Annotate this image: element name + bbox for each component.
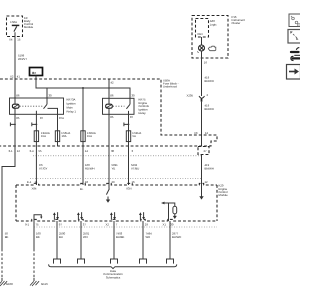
bus terminal staples [54,259,174,264]
svg-text:Logic: Logic [210,22,217,26]
svg-text:30: 30 [49,94,53,98]
svg-text:IGN: IGN [198,32,203,36]
svg-text:97: 97 [59,222,63,226]
left wire dashed to ground G108 [1,249,3,278]
svg-text:41: 41 [17,75,21,79]
svg-text:X205: X205 [187,93,194,97]
wire lamp to pin 16 [201,51,203,96]
svg-text:75: 75 [36,222,40,226]
svg-text:BK: BK [36,235,40,239]
power feed B+ box [30,68,43,76]
svg-text:86: 86 [110,94,114,98]
svg-text:85: 85 [110,115,114,119]
svg-text:B+: B+ [32,71,36,75]
svg-text:27: 27 [204,149,208,153]
ECM internal ground arrow on pin 12 [201,185,203,197]
svg-text:X2: X2 [10,75,14,79]
ground G116 [30,278,48,286]
fuse block X50A boundary (dashed) [0,79,217,146]
hook on pin85 wire [10,123,15,127]
svg-text:X4: X4 [9,38,13,42]
svg-text:15A: 15A [41,134,46,138]
ECM internal switch to ground on pin 29 [106,185,109,200]
svg-text:86: 86 [16,94,20,98]
harness dotted line upper [33,155,202,157]
fuse F50A symbol [12,24,19,26]
svg-text:BN/WH: BN/WH [205,166,214,170]
wire from BCM down to relay KR73A coil [14,37,16,99]
wire relay1 pin87 to fuse F94UA [35,114,37,131]
wire B+ bus to relay pins 30 [36,76,130,99]
svg-text:16: 16 [132,180,136,184]
wire ECM pin 29 to bus [142,221,144,259]
harness dotted line below ECM [34,226,217,228]
wires through fuse block bottom edge [35,142,37,146]
wire F59UA to ECM pin 16 [128,146,130,185]
sub-module A60 Logic (inner dashed box) [196,19,209,38]
wire ECM pin 97 to bus [56,221,58,259]
svg-text:29: 29 [145,222,149,226]
svg-text:Relay: Relay [139,111,147,115]
svg-text:VT/GY: VT/GY [39,166,48,170]
svg-text:5A: 5A [133,134,137,138]
svg-text:BN/WH: BN/WH [205,79,214,83]
wire ECM pin 37 to bus [80,221,82,259]
wire 3-1/12 down with jog to left [2,146,15,249]
ECM internal output arrows on pins 97 37 7 29 [53,215,55,220]
wire relay2 pin87 to fuse F59UA [128,114,130,131]
icon toolbar box 4 (forward arrow icon) [287,65,301,80]
svg-text:G116: G116 [41,282,48,286]
svg-text:X3: X3 [194,131,198,135]
ECM internal resistor branch (pin X1-30) [169,203,175,206]
svg-text:37: 37 [83,222,87,226]
svg-text:BU/BK: BU/BK [116,235,125,239]
wire relay2 pin85 (coil) down [108,114,110,146]
wire relay1 pin85 down [14,114,16,146]
icon toolbar glyph 3 (harness/connector icon) [291,48,300,61]
pin 27 stub box [198,147,209,155]
svg-text:55: 55 [39,149,43,153]
module P16 Instrument Cluster (dashed box) [192,16,228,59]
wire F58UA to ECM pin 18 [82,146,84,185]
fuse F59UA 5A [126,131,130,142]
ground G108 [0,278,13,286]
wire 3-4/55 down to ECM pin 11 [35,146,37,185]
svg-text:3-1: 3-1 [9,149,13,153]
fuse F94UA 15A [34,131,38,142]
svg-text:G108: G108 [6,282,13,286]
svg-text:VT/BU: VT/BU [131,166,139,170]
wire to KR75 coil from boundary [108,80,110,99]
hook on pin87 wire [32,123,37,127]
svg-text:WH: WH [146,235,151,239]
svg-text:15: 15 [17,38,21,42]
svg-text:87: 87 [130,115,134,119]
svg-text:BN/WH: BN/WH [205,107,214,111]
wire bus to fuse F58UA [82,88,84,131]
wire logic to lamp [201,37,203,45]
module K9 Body Control Module (dashed box) [7,16,23,37]
svg-text:15A: 15A [87,134,92,138]
svg-text:BK: BK [5,235,9,239]
relay KR75 Engine Controls Ignition Relay [103,98,135,114]
module K20 Engine Control Module (dashed box) [16,183,217,185]
svg-text:12: 12 [205,180,209,184]
svg-text:WH/VT: WH/VT [18,57,27,61]
svg-text:X84: X84 [32,186,37,190]
wire X205 to ECM pin 12 [201,155,203,186]
svg-text:14: 14 [85,149,89,153]
harness dotted line lower [30,178,202,180]
ECM internal hook on pin 75 [34,215,41,221]
icon toolbar box 1 (top right, parts icon) [289,14,301,27]
svg-text:30: 30 [111,149,115,153]
relay KR73A Ignition Main Relay 1 [10,98,64,114]
svg-text:WH: WH [83,235,88,239]
fuse F56UA 10A [55,131,59,142]
wire ECM pin 7 to bus [113,221,115,259]
svg-text:Module: Module [24,25,34,29]
svg-text:Schematics: Schematics [106,276,121,280]
wire relay2 coil to ECM pin 29 [108,146,110,185]
svg-text:B+: B+ [80,187,84,191]
svg-text:RD/WH: RD/WH [85,166,94,170]
svg-text:3-4: 3-4 [30,149,34,153]
engine (MIL) icon [208,46,216,51]
svg-text:16: 16 [204,60,208,64]
svg-text:E-1: E-1 [27,180,32,184]
svg-text:Module: Module [219,193,229,197]
wire ECM pin X1-30 to bus [169,221,171,259]
fuse F58UA 15A [81,131,85,142]
svg-text:Relay 1: Relay 1 [67,110,77,114]
svg-text:BU: BU [59,235,63,239]
svg-text:X1: X1 [163,222,167,226]
svg-text:BU/WH: BU/WH [172,235,181,239]
svg-text:87A: 87A [59,116,64,120]
svg-text:Underhood: Underhood [163,84,177,88]
svg-text:87: 87 [40,116,44,120]
svg-text:YE: YE [112,166,116,170]
svg-text:F50A: F50A [10,20,17,24]
svg-text:85: 85 [16,116,20,120]
svg-text:29: 29 [112,180,116,184]
svg-text:X2: X2 [106,222,110,226]
svg-text:42: 42 [111,80,115,84]
svg-text:12: 12 [17,149,21,153]
svg-text:10A: 10A [62,134,67,138]
wire X205 down to fuse block X3-12 [201,102,203,146]
wire relay1 pin87A to fuse F56UA [57,114,59,131]
svg-text:9-1: 9-1 [25,222,29,226]
wire ECM pin 75 to ground G116 [33,221,35,249]
svg-text:Cluster: Cluster [232,21,241,25]
connector X205 [199,96,205,98]
data bus brace [49,264,177,268]
indicator lamp (bulb) [199,45,205,51]
svg-text:30: 30 [170,222,174,226]
icon toolbar box 2 (diagonal arrow icon) [288,30,301,44]
svg-text:IGN: IGN [127,186,132,190]
svg-text:12: 12 [205,131,209,135]
svg-text:30: 30 [132,94,136,98]
